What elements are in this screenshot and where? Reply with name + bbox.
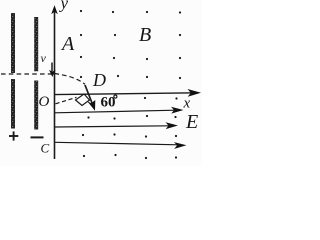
svg-text:E: E (185, 111, 198, 133)
dashed circular-arc trajectory (55, 74, 86, 85)
magnetic field dots row 5 (below x-axis) (144, 97, 178, 100)
small velocity arrow beside y-axis (51, 63, 53, 72)
capacitor right plate (upper segment) (34, 17, 38, 71)
y-axis (54, 8, 56, 159)
right-angle square marker at D (76, 94, 90, 106)
plus terminal (9, 131, 18, 140)
svg-text:B: B (139, 24, 151, 46)
E field line 1 (55, 110, 177, 113)
svg-text:y: y (59, 0, 69, 13)
svg-text:D: D (92, 70, 106, 90)
svg-text:v: v (41, 51, 47, 65)
magnetic field dots row 3 (80, 56, 181, 60)
svg-text:A: A (60, 33, 75, 55)
magnetic field dots row 6 (87, 115, 176, 120)
E field line 3 (55, 142, 180, 145)
svg-text:x: x (183, 96, 191, 112)
magnetic field dots row 8 (83, 154, 177, 159)
capacitor left plate (upper segment) (11, 13, 15, 73)
dashed radius line from O (56, 97, 77, 104)
magnetic field dots row 7 (82, 133, 177, 137)
svg-text:60: 60 (101, 95, 116, 111)
magnetic field dots row 1 (80, 10, 181, 14)
x-axis (55, 93, 197, 95)
capacitor left plate (lower segment) (11, 79, 15, 129)
magnetic field dots row 4 (80, 75, 181, 79)
svg-text:C: C (41, 141, 50, 156)
beam dashed line through plates (1, 73, 53, 75)
svg-text:O: O (39, 94, 50, 110)
magnetic field dots row 2 (80, 34, 181, 36)
minus terminal (31, 136, 44, 138)
E field line 2 (55, 126, 171, 127)
capacitor right plate (lower segment) (34, 81, 38, 130)
x-axis arrowhead (188, 89, 202, 97)
velocity arrow at D (60 degrees) (85, 85, 93, 106)
y-axis arrowhead (51, 5, 58, 14)
